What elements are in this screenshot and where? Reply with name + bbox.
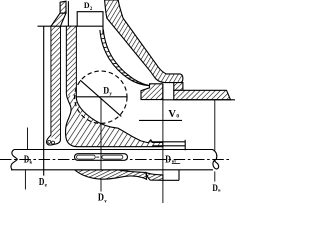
node Dvt label	[165, 155, 177, 166]
keyway inner slot left	[77, 155, 96, 159]
wire top horizontal casing line	[38, 25, 104, 27]
node De label	[39, 177, 48, 189]
svg-text:k: k	[30, 161, 33, 166]
keyway inner slot right	[102, 155, 123, 159]
hub lower sleeve hatched strip	[146, 173, 163, 181]
casing front wall band2 + hub mass hatched	[66, 26, 163, 146]
shaft right break squiggle	[213, 150, 219, 169]
svg-text:0: 0	[176, 114, 179, 120]
node Dj label	[98, 193, 107, 205]
shaft sleeve upper line outer	[151, 141, 186, 143]
node D2 label	[84, 1, 93, 12]
keyway centre dash	[96, 156, 99, 158]
left inner wall hatched band with foot	[47, 26, 61, 145]
impeller blade ladder band outer edge	[103, 30, 153, 87]
lower flange bar	[174, 90, 231, 99]
upper diagonal casing band merged with upper flange bar	[105, 0, 183, 83]
svg-text:D: D	[39, 177, 45, 188]
wire vertical extension line Dv upper	[214, 100, 216, 151]
svg-text:D: D	[24, 154, 29, 165]
svg-text:D: D	[165, 155, 171, 166]
wire Dj extension over slot	[100, 150, 102, 162]
wire thin outer stub line	[67, 1, 69, 26]
shaft centreline	[0, 159, 231, 161]
ladder rungs	[100, 34, 153, 86]
svg-text:D: D	[103, 85, 109, 96]
node Dk label	[24, 154, 33, 165]
wire long vertical section line	[162, 84, 164, 203]
step connector block	[174, 83, 183, 91]
volute lower wall blob	[75, 170, 147, 179]
node D0 label	[103, 85, 112, 97]
svg-text:V: V	[168, 108, 176, 120]
wire left suction wall vertical line	[43, 26, 45, 175]
shaft sleeve upper line inner	[152, 145, 185, 147]
shaft left break squiggle	[11, 150, 17, 170]
node V0 label	[168, 108, 179, 120]
discharge stub rectangle D2	[77, 12, 103, 34]
impeller blade ladder band inner edge	[100, 30, 150, 86]
sleeve lower step tick	[178, 170, 180, 181]
wire vertical extension line Dv lower	[214, 171, 216, 181]
diagonal centre mark	[80, 80, 121, 116]
Dk extension line upper	[27, 128, 29, 150]
volute tongue block	[141, 84, 163, 100]
bend piece of inner wall	[51, 13, 66, 26]
node Dv label	[212, 183, 221, 194]
foot toe circles	[48, 140, 51, 143]
shaft bottom edge	[11, 169, 213, 171]
circle horizontal centre mark	[76, 96, 126, 98]
keyway slot outer	[75, 154, 128, 161]
cap piece of inner wall	[60, 1, 66, 13]
impeller eye dashed circle D0	[75, 71, 127, 123]
shaft top edge	[14, 149, 213, 151]
wire V0 underline	[139, 119, 182, 121]
wire sleeve lower line	[163, 179, 179, 181]
Dk extension line lower	[24, 170, 26, 190]
Dvt underline	[172, 163, 180, 165]
vertical extension line to Dj	[100, 99, 102, 192]
sleeve end face tick	[184, 140, 186, 151]
wire casing split line to right edge	[163, 99, 235, 101]
